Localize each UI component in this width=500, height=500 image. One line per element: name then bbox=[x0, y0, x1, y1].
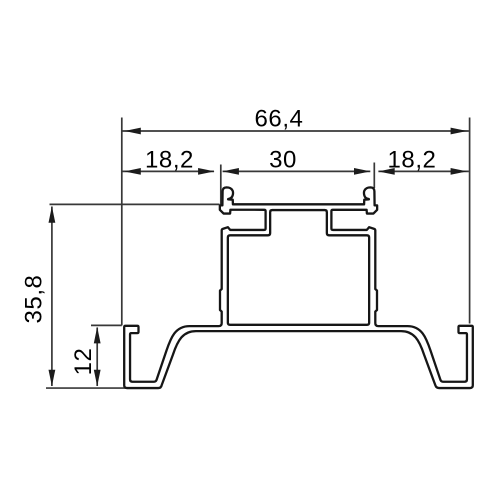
extension line left (x=121.8) bbox=[121, 118, 123, 326]
arrow 18,2-left right bbox=[198, 168, 215, 175]
arrow 18,2-right left bbox=[378, 168, 395, 175]
svg-text:18,2: 18,2 bbox=[388, 146, 437, 173]
arrow 66,4 left bbox=[124, 128, 141, 135]
svg-text:18,2: 18,2 bbox=[145, 146, 194, 173]
arrow 12 top bbox=[94, 327, 101, 344]
dimension line 18,2 left bbox=[123, 170, 215, 172]
extension line top of 35,8 (y=204.4) bbox=[50, 203, 220, 205]
dimension line 35,8 bbox=[51, 207, 53, 387]
arrow 18,2-right right bbox=[451, 168, 468, 175]
profile outer contour (aluminium extrusion cross-section) bbox=[124, 187, 473, 388]
arrow 30 left bbox=[222, 168, 239, 175]
svg-text:30: 30 bbox=[269, 146, 297, 173]
svg-text:12: 12 bbox=[70, 348, 97, 376]
extension line bottom baseline (y=388.0) bbox=[46, 387, 127, 389]
extension line 30-right (x=374.3) bbox=[373, 163, 375, 189]
arrow 12 bottom bbox=[94, 370, 101, 387]
dimension line 12 bbox=[96, 328, 98, 387]
dimension line 18,2 right bbox=[378, 170, 469, 172]
arrow 35,8 top bbox=[49, 206, 56, 223]
dimension line 30 bbox=[223, 170, 371, 172]
profile inner cavity contour bbox=[228, 210, 369, 325]
svg-text:35,8: 35,8 bbox=[21, 275, 48, 324]
arrow 35,8 bottom bbox=[49, 370, 56, 387]
extension line right (x=469.6) bbox=[469, 118, 471, 324]
svg-text:66,4: 66,4 bbox=[255, 106, 304, 133]
dimension line 66,4 bbox=[123, 130, 469, 132]
arrow 30 right bbox=[354, 168, 371, 175]
arrow 66,4 right bbox=[451, 128, 468, 135]
extension line 30-left (x=220.8) bbox=[220, 165, 222, 205]
arrow 18,2-left left bbox=[124, 168, 141, 175]
extension line top of 12 (y=325.4) bbox=[91, 324, 122, 326]
